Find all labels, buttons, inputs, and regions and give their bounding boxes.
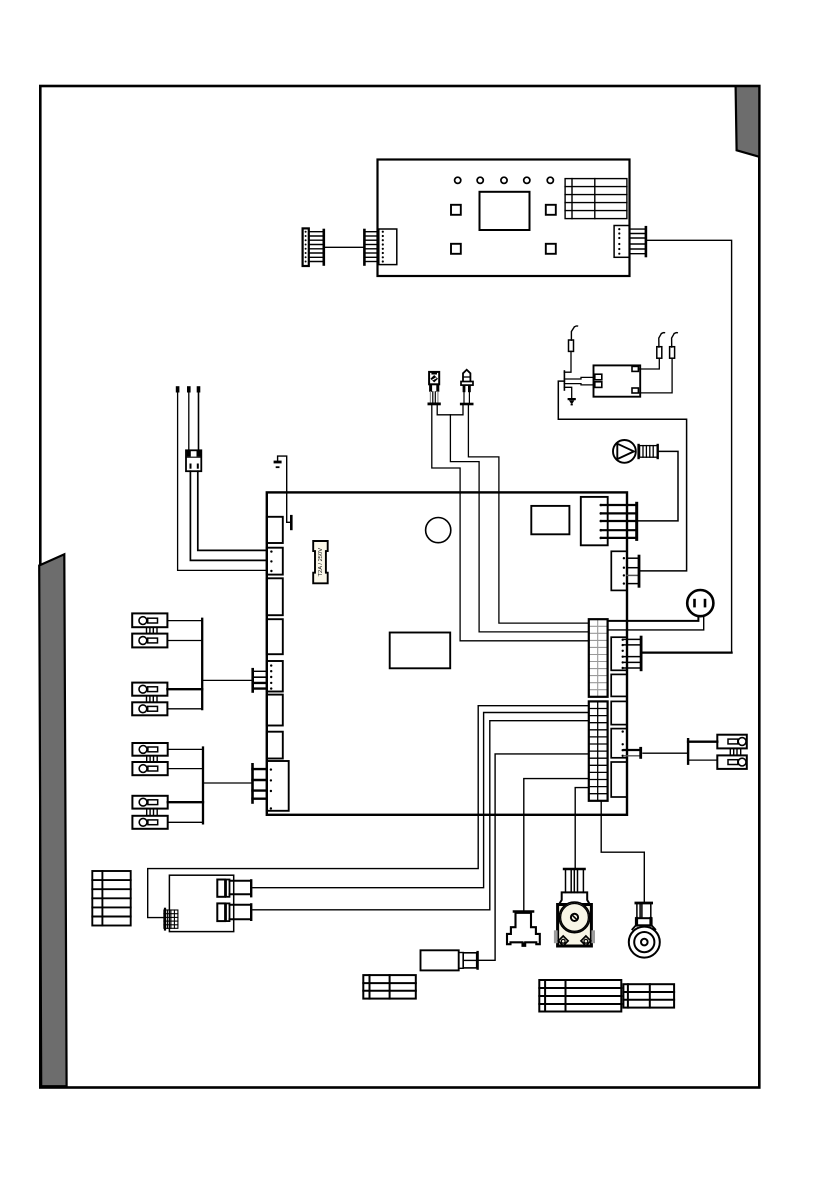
earth symbol near board top-left (274, 461, 282, 468)
earth pin bar on board (290, 515, 293, 530)
safety thermostat base bar (429, 402, 440, 405)
NTC probe cap (463, 370, 470, 381)
pressure sensor end bar (476, 952, 478, 969)
pump mounting tab right (581, 936, 591, 946)
IC rectangle top right on board (531, 506, 569, 534)
gas valve flange (636, 918, 652, 925)
faston terminal T5 (132, 743, 167, 756)
water pressure switch centre tab (523, 942, 526, 946)
wire T1 to bus (167, 620, 202, 622)
flame electrode sleeve (657, 347, 662, 359)
connector M10 box with 6 pins (611, 637, 627, 670)
gas valve coil body (637, 904, 651, 918)
LED DL3 (501, 177, 507, 183)
gas valve body circles (629, 927, 660, 958)
terminal strip X2 lower ladder (590, 701, 607, 800)
A1 terminal right top (632, 366, 638, 371)
M13 pin rungs (624, 749, 641, 751)
CN2 pin rungs (629, 229, 646, 254)
fan connector bars (637, 445, 639, 458)
connector M13 box with 4 pins (611, 729, 627, 758)
LED DL2 (477, 177, 483, 183)
spark electrode tip (672, 333, 678, 347)
faston terminal T2 (132, 634, 167, 648)
link bars T5-T6 (147, 756, 150, 762)
wire X2 to water pressure switch (524, 779, 589, 911)
mains plug symbol (687, 590, 713, 616)
detection electrode lead (564, 351, 571, 372)
bus bar group2 (202, 748, 204, 824)
wire fan to board connector M10 (638, 451, 678, 521)
spark gap prong 1 (564, 377, 594, 379)
pressure sensor plug (463, 953, 477, 968)
wire T3 to bus (thick) (167, 688, 202, 690)
wire plug out B to board M2 (190, 471, 266, 560)
svg-text:T2A / 250V: T2A / 250V (318, 548, 324, 577)
faston terminal T1 (132, 613, 167, 627)
water pressure switch body (507, 913, 540, 946)
connector M4 box (267, 619, 283, 654)
pump coil top bar (564, 868, 584, 871)
pressure sensor collar (459, 953, 464, 969)
fan motor symbol (613, 440, 636, 463)
wire T5 to bus (168, 748, 203, 750)
ground symbol at spark gap (568, 398, 576, 405)
page border frame (40, 86, 759, 1088)
A1 terminal left 1 (595, 374, 602, 380)
safety thermostat top notch (431, 373, 437, 375)
faston terminal T4 (132, 702, 167, 715)
main control board outline (267, 492, 627, 814)
ground stub wire (564, 387, 571, 398)
LED DL5 (547, 177, 553, 183)
bottom plug shroud (230, 905, 251, 920)
NTC probe flange (461, 382, 473, 386)
wire earth to board pin (278, 456, 290, 522)
wire ribbon cable CN1 to plug (324, 246, 365, 248)
wire M13 to right faston bus (643, 752, 688, 754)
button SW3 (451, 244, 461, 254)
connector M12 box (611, 701, 627, 724)
M10 header bar (640, 637, 643, 670)
wire probe 2 to plug (188, 393, 190, 451)
faston terminal T8 (132, 816, 167, 829)
fuse F1 body (313, 541, 328, 583)
relay circle on board (426, 518, 451, 543)
wire CN2 to main board connector M10 (646, 240, 732, 652)
legend table left (92, 871, 130, 926)
right faston bus bar (687, 739, 689, 764)
safety thermostat body (429, 372, 439, 384)
flame electrode tip (659, 333, 665, 347)
detection electrode sleeve (569, 340, 574, 351)
terminal strip X1 upper ladder (590, 620, 607, 696)
pump neck (559, 892, 590, 904)
pump side tab left (554, 930, 558, 943)
connector M6 box 4 pins (611, 551, 627, 590)
wire safety stat left lead to board (432, 405, 589, 641)
wire X2 row3 to bottom plug (253, 721, 589, 910)
safety thermostat stem (429, 392, 431, 403)
probe wire tips (3) (176, 386, 201, 392)
inline plug connector (hatched) (186, 450, 201, 471)
wire T7 to bus (thick) (168, 801, 203, 803)
connector CN2 housing on display board right edge (614, 226, 629, 258)
M13 header bar (639, 748, 642, 757)
plug connector X40 bar (322, 230, 325, 265)
page shadow left (39, 554, 66, 1086)
spark gap prong 2 (564, 384, 594, 385)
link bars T9-T10 (730, 748, 733, 755)
wire NTC right lead to board (468, 405, 588, 623)
page shadow top-right (736, 86, 760, 157)
top plug shroud (230, 881, 251, 895)
faston terminal T9 (717, 735, 747, 749)
pump coil windings (566, 870, 584, 892)
flame electrode lead to A1 (638, 358, 659, 369)
wire M10 thick segment (641, 651, 732, 653)
connector M7 box (267, 695, 283, 726)
wire link between probes (437, 405, 463, 415)
wire probe 3 to plug (198, 393, 200, 451)
link bars T3-T4 (147, 696, 150, 703)
wire probe 1 to board M2 (178, 393, 267, 571)
LCD display window (480, 192, 530, 230)
connector M14 box (611, 762, 627, 797)
M5 plug rungs (253, 670, 267, 672)
top plug housing (217, 880, 225, 897)
wire plug out A to board M2 (198, 471, 267, 550)
wire bus to T10 (688, 759, 717, 761)
wire X2 row2 to top plug (253, 713, 589, 888)
CN5 pin rungs (602, 505, 637, 538)
water pressure sensor body (421, 950, 459, 970)
pump rotor circles (559, 902, 590, 933)
wire T8 to bus (168, 821, 203, 823)
wire T4 to bus (167, 708, 202, 710)
M10 pin rungs (624, 639, 641, 668)
plug X40 housing (303, 228, 309, 266)
legend table centre (363, 975, 416, 999)
CN2 header bar (645, 227, 648, 256)
A1 terminal left 2 (595, 382, 602, 388)
connector M3 box (267, 578, 283, 615)
spark electrode lead to A1 (638, 358, 672, 393)
wire junction to board row (450, 415, 588, 632)
connector M8 box (267, 732, 283, 759)
wire plug pin L to X1 (608, 616, 699, 621)
spark gap bracket (563, 371, 565, 390)
bus bar group1 (201, 619, 203, 709)
wire T6 to bus (168, 768, 203, 770)
connector CN1 housing on display board left edge (379, 229, 397, 265)
connector M2 box with 3 pins (267, 548, 283, 575)
bottom plug contact bar (226, 903, 230, 921)
link bars T1-T2 (147, 627, 150, 633)
IC rectangle centre on board (390, 633, 451, 669)
spark electrode sleeve (670, 347, 675, 359)
connector M9 big box with pins (267, 761, 289, 811)
faston terminal T7 (132, 796, 167, 809)
wire X2 row1 to external box (left loop) (148, 706, 589, 918)
bottom plug housing (217, 903, 225, 921)
wire bus2 to M9 (203, 782, 253, 784)
gas valve coil top bar (636, 902, 652, 905)
CN5 header bar (635, 503, 638, 539)
legend table right B (623, 984, 674, 1007)
CN1 header bar (363, 230, 366, 265)
water pressure switch wire bar (514, 910, 533, 913)
grid connector on box left (164, 910, 178, 928)
wire A1 supply to board connector M6 (558, 381, 686, 571)
pump mounting tab left (558, 936, 568, 946)
plug X40 pin rungs (309, 232, 324, 262)
display board P2 outline (378, 160, 630, 277)
connector M5 box with 5 pins (267, 661, 283, 692)
connector M1 box on left edge (267, 517, 283, 543)
M6 header bar (638, 556, 641, 586)
link bars T7-T8 (147, 809, 150, 816)
wire X2 bottom to gas valve (601, 801, 644, 902)
M9 plug rungs (thick) (253, 768, 267, 770)
NTC probe stem (463, 392, 465, 403)
M5 plug bar (251, 669, 254, 691)
faston terminal T10 (717, 755, 747, 769)
external control box (169, 875, 233, 931)
pump side tab right (591, 930, 595, 943)
connector M11 box (611, 674, 627, 696)
legend table on display board (565, 179, 627, 219)
wire X2 to pump (575, 788, 589, 869)
NTC base bar (461, 403, 472, 406)
top plug contact bar (226, 880, 230, 897)
safety thermostat contact diamond (431, 376, 437, 382)
M9 plug bar (251, 764, 254, 802)
button SW4 (546, 244, 556, 254)
gas valve shoulders (632, 925, 655, 929)
NTC probe legs (463, 385, 471, 392)
wire plug pin N to X1 (608, 616, 704, 630)
wire X2 row6 to pressure sensor (479, 754, 589, 960)
A1 terminal right bottom (632, 388, 638, 393)
wire bus to T9 (thick) (688, 741, 717, 743)
faston terminal T6 (132, 762, 167, 775)
button SW2 (546, 205, 556, 215)
connector CN5 box top right on board (581, 497, 608, 545)
LED DL4 (524, 177, 530, 183)
wire T2 to bus (167, 640, 202, 642)
safety thermostat legs (429, 384, 439, 392)
fan triangle (617, 444, 634, 459)
detection electrode tip (571, 326, 577, 340)
pump centre screw (571, 914, 578, 921)
button SW1 (451, 205, 461, 215)
CN1 pin rungs (364, 232, 377, 262)
M6 pin rungs (627, 558, 639, 583)
wire bus1 to M5 (202, 679, 253, 681)
fan connector hatched plug (640, 446, 658, 458)
faston terminal T3 (132, 683, 167, 696)
ignition transformer A1 box (594, 365, 641, 396)
legend table right A (539, 980, 621, 1012)
LED DL1 (455, 177, 461, 183)
pump body (558, 905, 592, 947)
